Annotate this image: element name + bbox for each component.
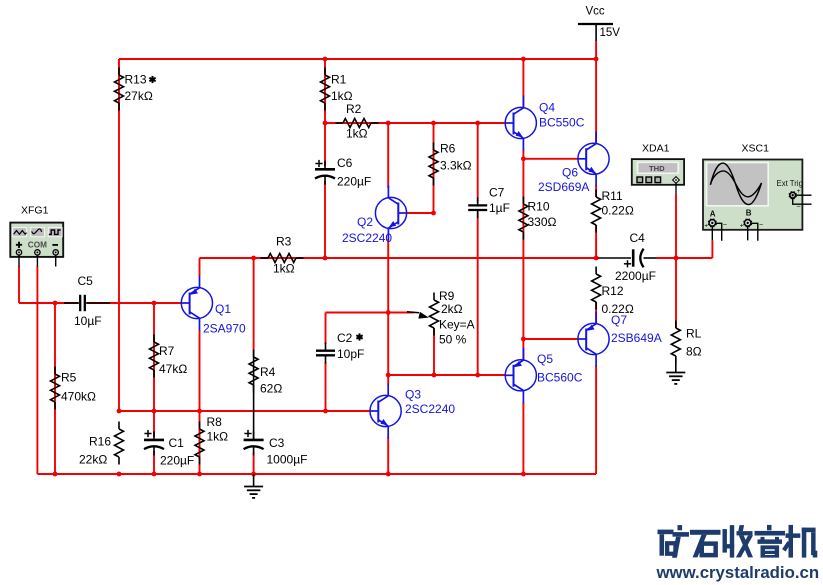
resistor R6 [433, 143, 435, 151]
wire Q4 collector to rail [522, 59, 524, 109]
svg-text:R1: R1 [331, 73, 347, 87]
svg-text:R3: R3 [276, 235, 292, 249]
wire Q1 emitter-R8 vertical [199, 330, 201, 474]
svg-text:Q2: Q2 [357, 215, 373, 229]
capacitor C6 polarized [324, 161, 326, 170]
svg-text:470kΩ: 470kΩ [61, 390, 96, 404]
svg-text:2SB649A: 2SB649A [611, 331, 662, 345]
resistor R4 [253, 350, 255, 358]
wire R6 vertical [433, 123, 435, 213]
svg-text:A: A [710, 210, 716, 219]
junction R9 bottom [432, 373, 437, 378]
svg-text:Q6: Q6 [562, 166, 578, 180]
wire C2-wiper horizontal [326, 312, 415, 314]
svg-text:2SC2240: 2SC2240 [342, 231, 392, 245]
resistor R3 [261, 257, 269, 259]
svg-text:−: − [797, 204, 801, 211]
svg-text:2SA970: 2SA970 [203, 322, 246, 336]
wire Q5c-Q7b horizontal y=339 [523, 338, 578, 340]
junction C7 top [475, 121, 480, 126]
ground below C3 [253, 474, 255, 486]
svg-text:2SD669A: 2SD669A [538, 180, 589, 194]
wire ground rail y=474 [37, 473, 596, 475]
wire Q2 collector vertical [387, 123, 389, 188]
svg-text:THD: THD [649, 164, 665, 173]
junction C7 bottom [475, 373, 480, 378]
svg-text:8Ω: 8Ω [686, 345, 702, 359]
capacitor C5 [64, 302, 79, 304]
svg-text:C6: C6 [337, 156, 353, 170]
wire input line y=303 [19, 302, 78, 304]
svg-text:R6: R6 [440, 142, 456, 156]
watermark logo text [658, 525, 818, 558]
wire Q5 emitter node [522, 339, 524, 361]
wire Q4e-Q6b horizontal [523, 158, 578, 160]
svg-text:XSC1: XSC1 [742, 143, 770, 155]
function generator XFG1 [10, 223, 63, 257]
wire C7 vertical [477, 123, 479, 203]
resistor R7 [153, 335, 155, 343]
junction C2-Q3 base [323, 409, 328, 414]
svg-text:62Ω: 62Ω [260, 382, 282, 396]
junction Q1e-R8 [197, 409, 202, 414]
wire R7-C1 vertical [153, 303, 155, 437]
junction R1-R2-C6 [323, 121, 328, 126]
junction gnd-R8 [197, 472, 202, 477]
power Vcc symbol [578, 23, 613, 25]
svg-text:C4: C4 [630, 231, 646, 245]
junction output-R4 [251, 256, 256, 261]
svg-text:R13: R13 [125, 73, 147, 87]
wire XFG1 plus down [18, 266, 20, 303]
wire XFG1 com down [36, 266, 38, 474]
wire R4-C3 vertical [253, 258, 255, 352]
transistor Q3 NPN [370, 395, 401, 426]
svg-text:B: B [746, 209, 752, 218]
junction output-C6-R3 [323, 256, 328, 261]
svg-text:22kΩ: 22kΩ [79, 453, 107, 467]
wire R12 to Q7 emitter [595, 302, 597, 324]
svg-text:1kΩ: 1kΩ [273, 262, 295, 276]
junction gnd-Q3e [386, 472, 391, 477]
svg-text:R10: R10 [528, 200, 550, 214]
wire Q1 top pin to output line [199, 258, 201, 276]
svg-text:2SC2240: 2SC2240 [405, 402, 455, 416]
wire R5 vertical [54, 303, 56, 474]
svg-text:50 %: 50 % [439, 333, 467, 347]
svg-text:Q5: Q5 [537, 352, 553, 366]
junction gnd-R5 [53, 472, 58, 477]
svg-text:C1: C1 [169, 436, 185, 450]
svg-text:0.22Ω: 0.22Ω [602, 204, 634, 218]
junction output-XDA1-RL [674, 256, 679, 261]
svg-text:C2: C2 [337, 331, 353, 345]
svg-text:XFG1: XFG1 [21, 205, 49, 217]
junction R10-Q5e-Q7b [521, 337, 526, 342]
wire XSC1 channel A down [711, 241, 713, 259]
svg-text:47kΩ: 47kΩ [159, 362, 187, 376]
wire R10 vertical [522, 159, 524, 339]
wire XDA1 input down [675, 194, 677, 258]
junction R7-C1 [152, 409, 157, 414]
wire Q6 emitter to R11 [595, 186, 597, 198]
svg-text:Q3: Q3 [405, 388, 421, 402]
svg-text:Q4: Q4 [539, 101, 555, 115]
svg-text:1kΩ: 1kΩ [346, 127, 368, 141]
resistor R8 [199, 422, 201, 430]
junction gnd-C1 [152, 472, 157, 477]
resistor R16 [118, 422, 120, 430]
resistor RL [675, 321, 677, 329]
wire Q6 collector [595, 59, 597, 144]
junction VAS-C2-wiper [386, 310, 391, 315]
svg-text:Q7: Q7 [611, 313, 627, 327]
wire Q5 base horizontal y=375 [388, 374, 505, 376]
svg-text:R16: R16 [89, 435, 111, 449]
resistor R12 [595, 267, 597, 275]
wire Q3 base horizontal y=411 [119, 410, 371, 412]
svg-text:C3: C3 [269, 436, 285, 450]
svg-text:+: + [797, 188, 801, 195]
svg-text:1000µF: 1000µF [267, 453, 308, 467]
svg-text:330Ω: 330Ω [528, 215, 557, 229]
svg-text:1kΩ: 1kΩ [331, 89, 353, 103]
svg-text:R12: R12 [602, 284, 624, 298]
svg-text:RL: RL [686, 327, 702, 341]
junction gnd-R16 [117, 472, 122, 477]
junction rail-Q4c [521, 57, 526, 62]
wire Q2 emitter to Q3 collector [387, 239, 389, 385]
svg-text:10µF: 10µF [74, 314, 102, 328]
resistor R11 [595, 190, 597, 198]
potentiometer R9 [433, 293, 435, 301]
capacitor C4 polarized [599, 257, 632, 259]
svg-text:R11: R11 [602, 189, 623, 203]
junction R13-R16-base line [117, 409, 122, 414]
svg-text:R8: R8 [207, 415, 223, 429]
wire C2 bottom lead [325, 362, 327, 411]
svg-text:C7: C7 [489, 186, 505, 200]
junction Q4e-Q6b-R10 [521, 156, 526, 161]
wire RL branch [675, 258, 677, 328]
capacitor C3 polarized [253, 431, 255, 440]
resistor R10 [522, 197, 524, 205]
svg-text:Key=A: Key=A [439, 318, 475, 332]
transistor Q5 PNP [505, 360, 536, 391]
capacitor C1 polarized [153, 431, 155, 440]
wire base line Q4 y=123 [325, 122, 506, 124]
svg-text:2200µF: 2200µF [615, 269, 656, 283]
svg-text:+: + [704, 223, 708, 230]
junction gnd-Q5c [521, 472, 526, 477]
svg-text:R5: R5 [61, 371, 77, 385]
distortion analyzer XDA1 [632, 159, 684, 185]
junction R6 top [431, 121, 436, 126]
svg-text:COM: COM [28, 241, 47, 250]
wire C2 top corner vertical [325, 313, 327, 345]
svg-text:Ext Trig: Ext Trig [777, 179, 803, 188]
svg-text:10pF: 10pF [337, 347, 364, 361]
junction VAS-Q5base [386, 373, 391, 378]
wire output line after C4 [657, 257, 713, 259]
svg-text:220µF: 220µF [160, 454, 194, 468]
wire Q3 emitter down [387, 437, 389, 474]
wire Q4 emitter to node [522, 150, 524, 160]
svg-text:2kΩ: 2kΩ [441, 302, 463, 316]
wire Q7 collector down [595, 366, 597, 475]
svg-text:1µF: 1µF [489, 201, 510, 215]
svg-text:R4: R4 [260, 365, 276, 379]
svg-text:BC560C: BC560C [537, 371, 583, 385]
svg-text:Vcc: Vcc [586, 6, 605, 18]
resistor R5 [54, 367, 56, 375]
ground below RL [675, 356, 677, 372]
resistor R1 [324, 68, 326, 76]
wire Vcc stub red [595, 41, 597, 59]
svg-text:15V: 15V [600, 27, 621, 39]
capacitor C2 [325, 343, 327, 351]
resistor R13 [118, 68, 120, 76]
svg-text:R2: R2 [346, 102, 362, 116]
svg-text:27kΩ: 27kΩ [125, 89, 153, 103]
junction output-R11-R12 [594, 256, 599, 261]
transistor Q2 NPN [375, 197, 406, 228]
junction rail-Vcc [594, 57, 599, 62]
svg-text:3.3kΩ: 3.3kΩ [440, 159, 472, 173]
svg-text:BC550C: BC550C [539, 116, 585, 130]
transistor Q1 PNP [181, 287, 212, 318]
capacitor C7 [477, 197, 479, 205]
svg-text:−: − [759, 222, 763, 229]
junction gnd-C3-ground [251, 472, 256, 477]
resistor R2 [336, 122, 344, 124]
transistor Q4 NPN [505, 107, 536, 138]
wire R9 bottom to Q5 base line [433, 328, 435, 375]
junction input-R5 [53, 301, 58, 306]
junction R2-Q2c [386, 121, 391, 126]
svg-text:+: + [740, 223, 744, 230]
svg-text:www.crystalradio.cn: www.crystalradio.cn [656, 563, 820, 582]
wire Vcc rail top [119, 58, 596, 60]
svg-text:Q1: Q1 [215, 302, 231, 316]
wire output line y=258 [200, 257, 600, 259]
svg-text:R9: R9 [439, 289, 455, 303]
transistor Q6 NPN [578, 143, 609, 174]
wire R1-C6 vertical [324, 59, 326, 166]
transistor Q7 PNP [578, 323, 609, 354]
svg-text:1kΩ: 1kΩ [207, 430, 229, 444]
svg-text:XDA1: XDA1 [642, 143, 670, 155]
wire Q5 collector down [522, 402, 524, 474]
svg-text:R7: R7 [159, 344, 175, 358]
junction rail-R1 [323, 57, 328, 62]
oscilloscope XSC1 [703, 160, 802, 230]
wire R11 to output node [595, 225, 597, 258]
svg-text:−: − [723, 222, 727, 229]
junction R6-Q2b-R9 [431, 211, 436, 216]
svg-text:220µF: 220µF [337, 175, 371, 189]
wire Q2 base horizontal [407, 212, 434, 214]
svg-text:C5: C5 [78, 274, 94, 288]
junction input-R7 [152, 301, 157, 306]
wire R13 branch vertical [118, 59, 120, 411]
